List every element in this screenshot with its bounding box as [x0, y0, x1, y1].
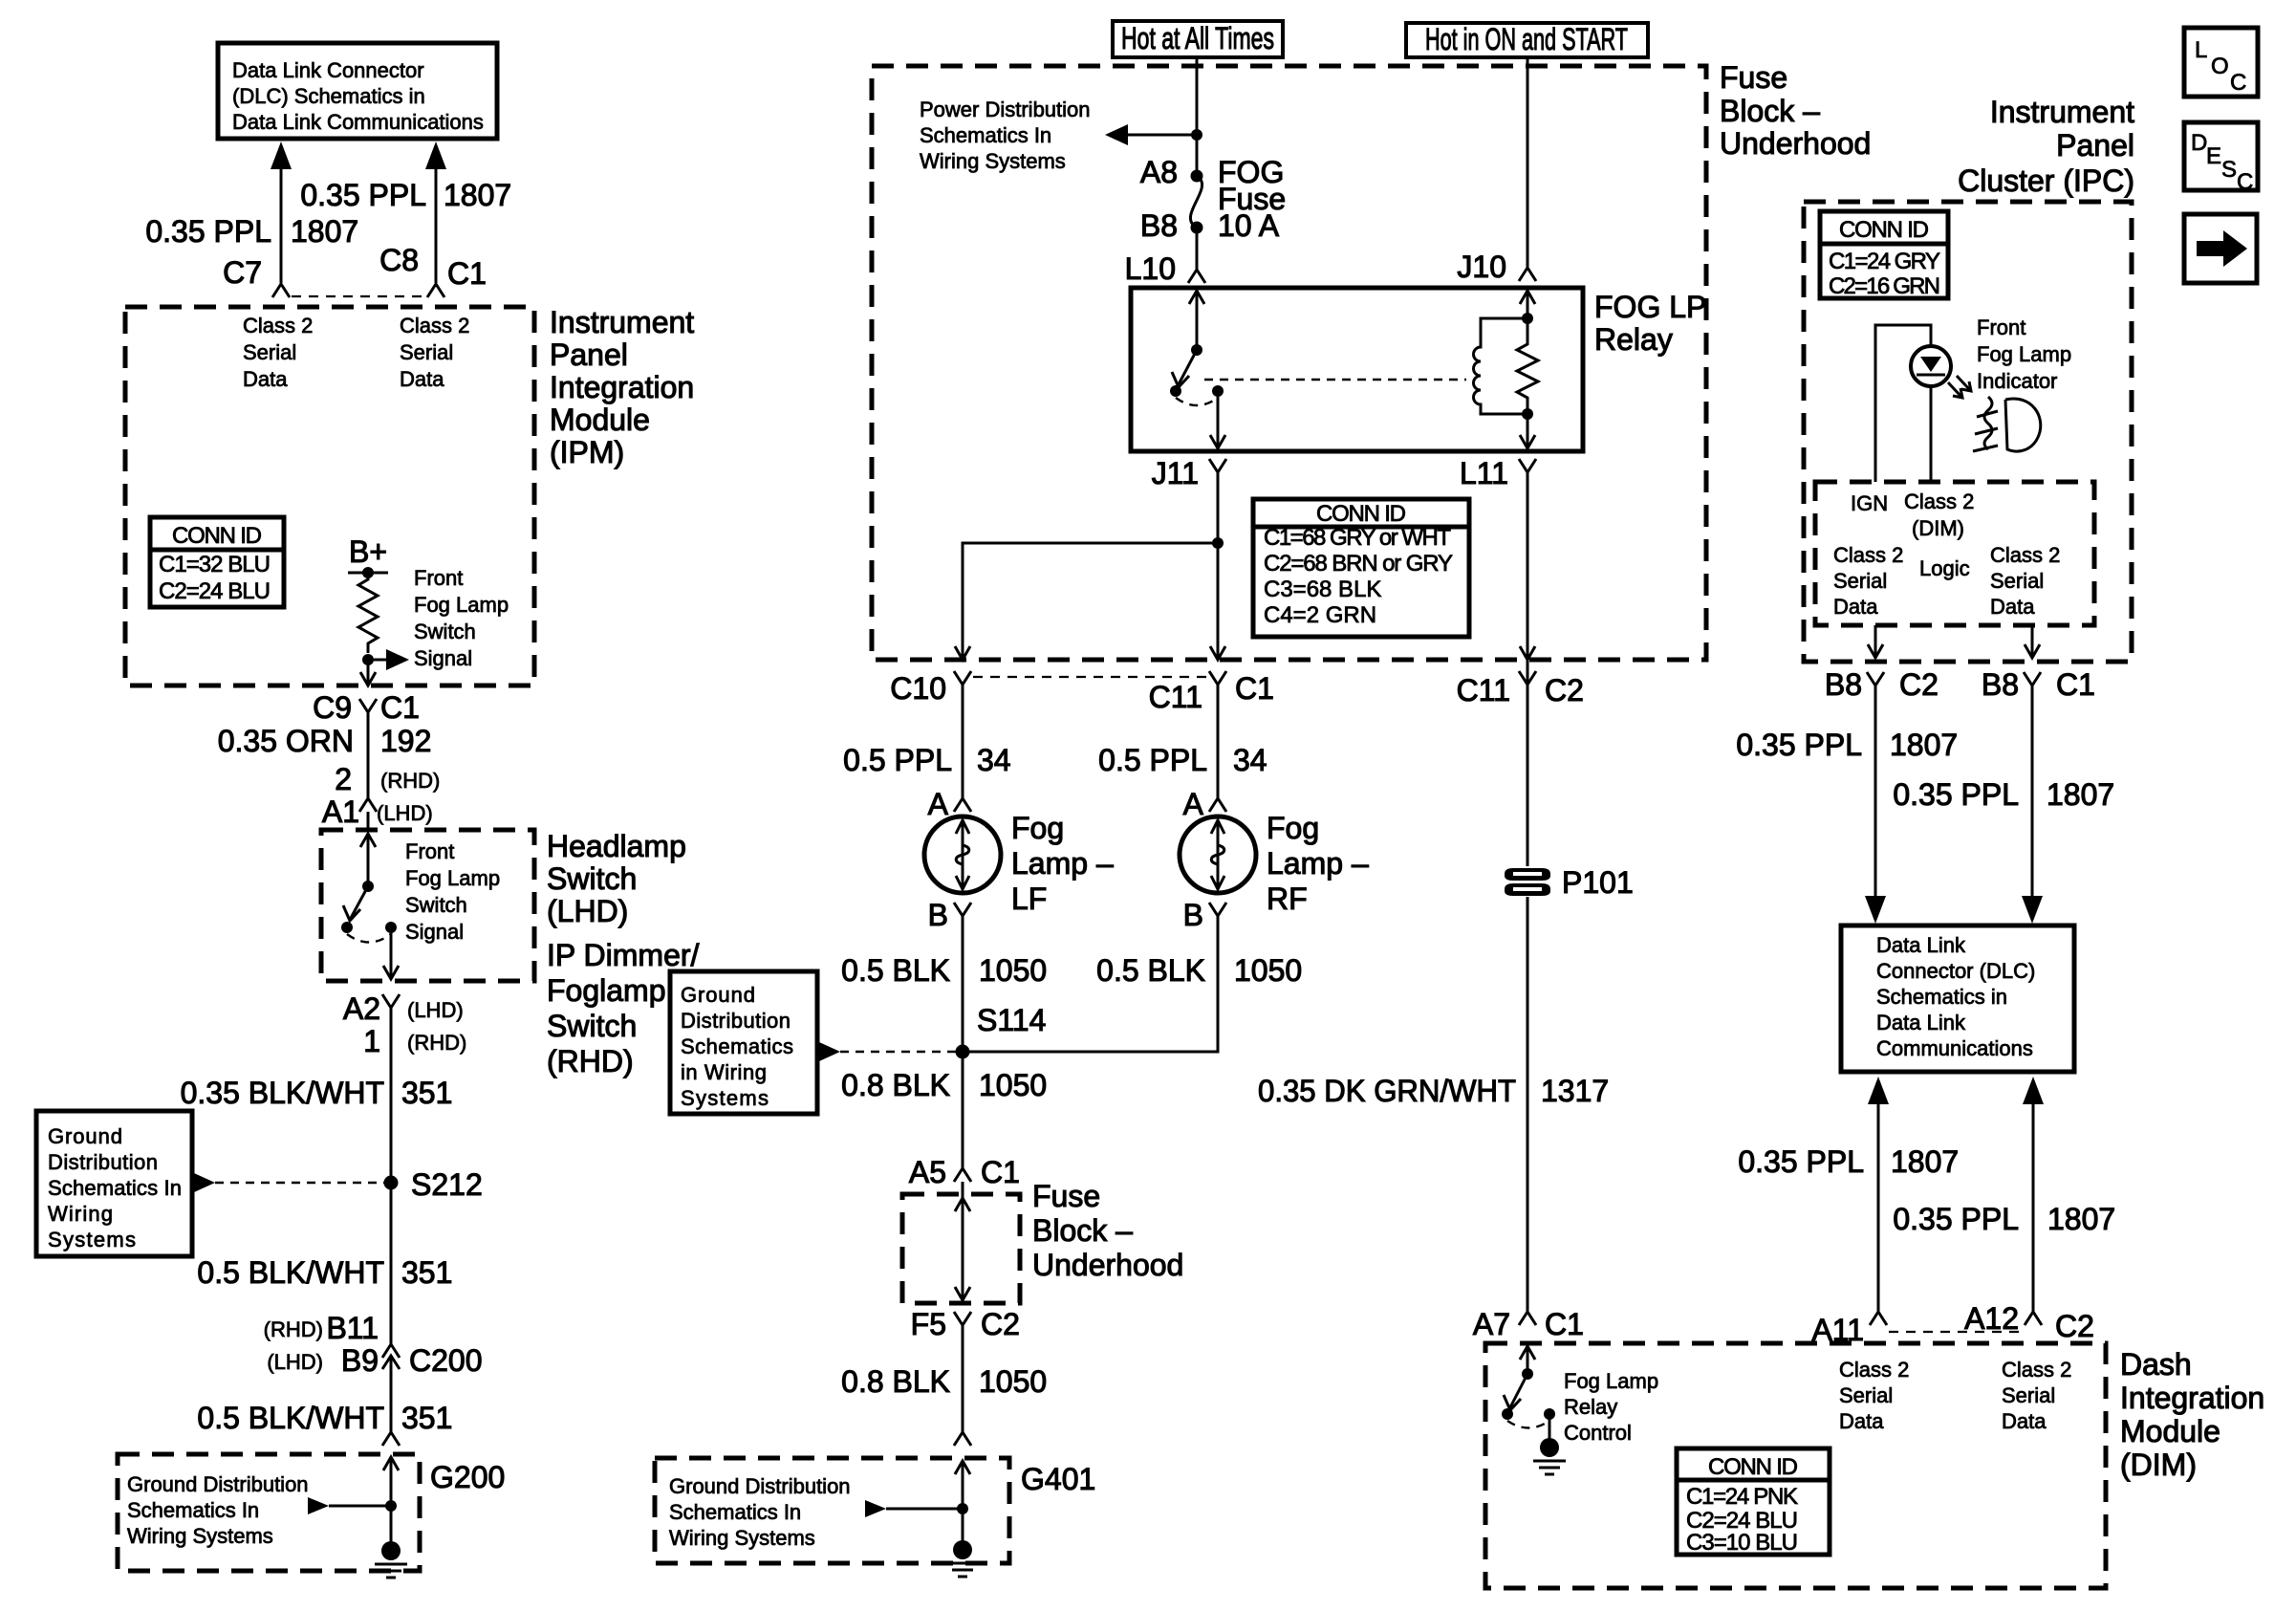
label 1 (RHD) — [363, 1024, 466, 1058]
label 0.35 PPL 1807 (A12 wire) — [1893, 1202, 2115, 1236]
svg-text:Serial: Serial — [243, 340, 296, 364]
svg-text:Wiring Systems: Wiring Systems — [920, 149, 1066, 173]
connector L10 fork — [1188, 270, 1205, 283]
wire signal to IPM edge with arrow — [360, 660, 376, 686]
Hot at All Times box — [1113, 21, 1283, 57]
svg-text:Schematics In: Schematics In — [127, 1498, 259, 1522]
svg-text:C1: C1 — [380, 690, 420, 725]
svg-text:1807: 1807 — [1891, 1144, 1959, 1179]
svg-text:1807: 1807 — [2047, 777, 2114, 812]
next-page arrow icon box — [2184, 214, 2257, 283]
svg-text:Distribution: Distribution — [681, 1009, 791, 1033]
svg-text:Relay: Relay — [1594, 322, 1673, 357]
text Ground Distribution Schematics In Wiring Systems (G401) — [669, 1474, 851, 1550]
svg-text:B8: B8 — [1982, 667, 2019, 702]
svg-text:(DIM): (DIM) — [2120, 1448, 2197, 1482]
svg-text:0.5 BLK: 0.5 BLK — [841, 953, 950, 988]
label 0.35 DK GRN/WHT 1317 — [1258, 1074, 1609, 1108]
headlamp switch output wire with down arrow — [383, 927, 399, 979]
DIM switch throw dashed arc — [1507, 1421, 1549, 1428]
label Front Fog Lamp Switch Signal (headlamp switch) — [405, 839, 500, 944]
svg-text:A: A — [928, 787, 949, 821]
headlamp switch throw dashed arc — [347, 934, 391, 943]
relay switch entry wire with up arrow — [1189, 291, 1204, 350]
label Class 2 Serial Data (A11) — [1839, 1358, 1909, 1433]
DIM ground symbol — [1533, 1414, 1566, 1474]
svg-text:Ground: Ground — [48, 1124, 122, 1148]
connector J11 fork — [1209, 459, 1226, 472]
fog lamp LF — [924, 816, 1001, 893]
IPC logic inner dashed box — [1815, 482, 2094, 625]
G200 splice arrow — [308, 1497, 391, 1514]
wire J11 down to junction — [1217, 472, 1220, 658]
wire B (LF) to S114 — [962, 916, 964, 1052]
svg-text:A8: A8 — [1140, 155, 1178, 189]
svg-text:C1=68 GRY or WHT: C1=68 GRY or WHT — [1264, 525, 1451, 551]
svg-text:1807: 1807 — [291, 214, 358, 249]
DIM switch terminal dot (left) — [1502, 1408, 1513, 1420]
svg-text:Cluster (IPC): Cluster (IPC) — [1958, 163, 2134, 198]
svg-text:(RHD): (RHD) — [407, 1031, 466, 1055]
svg-text:0.35 PPL: 0.35 PPL — [1893, 777, 2019, 812]
svg-text:C: C — [2237, 169, 2253, 195]
svg-text:IP Dimmer/: IP Dimmer/ — [547, 938, 700, 972]
svg-text:Block –: Block – — [1720, 94, 1820, 128]
svg-text:C1: C1 — [1545, 1307, 1584, 1341]
connector A7 fork — [1519, 1312, 1536, 1325]
svg-text:CONN ID: CONN ID — [1839, 217, 1929, 243]
wire B (RF) to S114 — [963, 916, 1218, 1052]
svg-text:1050: 1050 — [979, 953, 1047, 988]
front fog lamp indicator LED — [1911, 346, 1951, 386]
svg-text:Serial: Serial — [1839, 1383, 1893, 1407]
svg-text:(RHD): (RHD) — [380, 769, 440, 793]
svg-text:Data: Data — [1833, 595, 1878, 619]
label Headlamp Switch (LHD) / IP Dimmer Foglamp Switch (RHD) — [547, 829, 700, 1078]
svg-text:C2=68 BRN or GRY: C2=68 BRN or GRY — [1264, 551, 1453, 577]
svg-text:C2=24 BLU: C2=24 BLU — [159, 578, 271, 604]
svg-text:Serial: Serial — [1990, 569, 2044, 593]
label 0.5 PPL 34 (LF) — [843, 743, 1010, 777]
front fog lamp indicator icon — [1973, 397, 2041, 451]
svg-text:Control: Control — [1564, 1421, 1632, 1445]
svg-text:Class 2: Class 2 — [2002, 1358, 2071, 1382]
relay coil top junction dot — [1522, 313, 1533, 324]
svg-text:CONN ID: CONN ID — [1316, 501, 1406, 527]
label 0.35 PPL 1807 (A11 wire) — [1738, 1144, 1959, 1179]
svg-text:C1: C1 — [447, 256, 487, 291]
svg-text:Panel: Panel — [550, 337, 628, 372]
svg-text:A5: A5 — [909, 1155, 946, 1189]
label FOG LP Relay — [1594, 290, 1706, 357]
G200 junction dot — [385, 1500, 397, 1512]
label Class 2 Serial Data (logic right) — [1990, 543, 2060, 619]
relay switch throw dashed arc — [1176, 398, 1218, 405]
connector C10 fork — [954, 671, 971, 685]
DIM dashed box — [1485, 1343, 2106, 1588]
svg-text:Communications: Communications — [1876, 1036, 2033, 1060]
svg-text:(LHD): (LHD) — [547, 894, 628, 928]
svg-text:Wiring Systems: Wiring Systems — [669, 1526, 815, 1550]
headlamp switch dashed box — [321, 830, 534, 981]
G401 ground wire entry arrow — [955, 1461, 970, 1509]
wire through small fuse block with arrows — [955, 1182, 970, 1300]
svg-text:Systems: Systems — [681, 1086, 769, 1110]
G200 ground distribution dashed box — [118, 1454, 420, 1571]
label 0.5 BLK/WHT 351 (upper) — [197, 1255, 452, 1290]
text Ground Distribution Schematics In Wiring Systems (G200) — [127, 1472, 309, 1548]
svg-text:Front: Front — [1977, 316, 2025, 339]
svg-text:C200: C200 — [409, 1343, 483, 1378]
connector C8 fork — [427, 284, 444, 297]
label 0.35 PPL 1807 (B8/C2 wire) — [1736, 728, 1958, 762]
svg-text:B9: B9 — [341, 1343, 379, 1378]
connector B fork (RF) — [1209, 903, 1226, 916]
IPM module dashed box — [125, 307, 534, 686]
IPC wire IGN branch — [1875, 325, 1931, 482]
svg-text:34: 34 — [977, 743, 1011, 777]
FOG LP relay box — [1131, 288, 1583, 451]
svg-text:Signal: Signal — [405, 920, 464, 944]
svg-text:LF: LF — [1011, 882, 1047, 916]
CONN ID table (IPC) — [1820, 211, 1948, 299]
relay switch output wire with down arrow — [1210, 391, 1225, 448]
wire B8/C2 down to DLC with arrow — [1865, 686, 1886, 924]
svg-text:0.5 BLK/WHT: 0.5 BLK/WHT — [197, 1401, 384, 1435]
label 0.35 ORN 192 — [218, 724, 432, 758]
svg-text:Underhood: Underhood — [1032, 1248, 1183, 1282]
svg-text:Headlamp: Headlamp — [547, 829, 686, 863]
connector A5 fork — [954, 1168, 971, 1182]
svg-text:Schematics: Schematics — [681, 1034, 793, 1058]
svg-text:Indicator: Indicator — [1977, 369, 2057, 393]
svg-text:(LHD): (LHD) — [407, 998, 464, 1022]
label Class 2 Serial Data (C7 pin) — [243, 314, 313, 391]
svg-text:0.5 PPL: 0.5 PPL — [843, 743, 952, 777]
wire C9 to A1 — [367, 712, 370, 798]
svg-text:Fuse: Fuse — [1720, 60, 1787, 95]
svg-text:2: 2 — [335, 762, 352, 796]
svg-text:B11: B11 — [326, 1311, 379, 1345]
connector fork at G200 — [382, 1432, 400, 1446]
junction dot J11 branch — [1212, 537, 1224, 549]
headlamp switch terminal dot (left) — [341, 922, 353, 933]
svg-text:B+: B+ — [349, 534, 387, 569]
svg-text:Lamp –: Lamp – — [1011, 846, 1114, 881]
svg-text:C11: C11 — [1457, 673, 1510, 708]
DLC schematics box (top left) — [218, 43, 497, 139]
relay switch terminal dot (right) — [1212, 385, 1224, 397]
headlamp switch terminal dot (right) — [385, 922, 397, 933]
G401 junction dot — [957, 1503, 968, 1514]
S212 splice arrow — [194, 1173, 384, 1192]
svg-text:Wiring Systems: Wiring Systems — [127, 1524, 273, 1548]
svg-text:0.35 PPL: 0.35 PPL — [1738, 1144, 1864, 1179]
svg-text:Integration: Integration — [2120, 1381, 2264, 1415]
svg-text:34: 34 — [1233, 743, 1267, 777]
connector B8/C1 fork — [2024, 672, 2041, 686]
svg-text:0.35 PPL: 0.35 PPL — [1736, 728, 1862, 762]
svg-text:Serial: Serial — [2002, 1383, 2055, 1407]
label Fuse Block - Underhood (small) — [1032, 1179, 1183, 1282]
svg-text:1807: 1807 — [444, 178, 511, 212]
svg-text:F5: F5 — [911, 1307, 946, 1341]
label Dash Integration Module (DIM) — [2120, 1347, 2264, 1482]
connector A2 fork — [382, 994, 400, 1008]
pass-through grommet P101 — [1505, 868, 1550, 896]
svg-text:Fog Lamp: Fog Lamp — [405, 866, 500, 890]
svg-text:CONN ID: CONN ID — [1708, 1454, 1798, 1480]
connector A12 fork — [2025, 1312, 2042, 1325]
svg-text:Fog: Fog — [1011, 811, 1064, 845]
DIM switch lever with arrowhead — [1504, 1374, 1527, 1410]
svg-text:(LHD): (LHD) — [267, 1350, 323, 1374]
label 0.35 PPL 1807 (C8 wire) — [300, 178, 511, 212]
ground distribution schematics box (S114) — [670, 971, 817, 1114]
svg-text:C3=10 BLU: C3=10 BLU — [1686, 1530, 1798, 1556]
connector B fork (LF) — [954, 903, 971, 916]
fog lamp RF — [1180, 816, 1256, 893]
label 0.8 BLK 1050 (upper) — [841, 1068, 1047, 1102]
connector fork at G401 — [954, 1432, 971, 1446]
svg-text:Integration: Integration — [550, 370, 694, 404]
svg-text:Ground Distribution: Ground Distribution — [669, 1474, 851, 1498]
label 0.35 PPL 1807 (C7 wire) — [145, 214, 358, 249]
svg-text:C3=68 BLK: C3=68 BLK — [1264, 577, 1381, 602]
label A2 (LHD) — [343, 991, 464, 1026]
svg-text:Systems: Systems — [48, 1228, 136, 1252]
svg-text:Data Link: Data Link — [1876, 933, 1966, 957]
svg-text:L: L — [2195, 37, 2207, 63]
svg-text:Distribution: Distribution — [48, 1150, 158, 1174]
wire B8 to L10 — [1196, 228, 1199, 270]
IPC dashed box — [1804, 202, 2132, 662]
svg-text:Fog Lamp: Fog Lamp — [414, 593, 509, 617]
connector A fork (RF) — [1209, 798, 1226, 812]
svg-text:0.8 BLK: 0.8 BLK — [841, 1068, 950, 1102]
label Instrument Panel Cluster (IPC) — [1958, 95, 2134, 198]
svg-text:1050: 1050 — [979, 1364, 1047, 1399]
svg-text:L11: L11 — [1460, 456, 1508, 490]
LED light rays — [1948, 376, 1971, 398]
label Fog Lamp Relay Control — [1564, 1369, 1658, 1445]
svg-text:C: C — [2230, 70, 2246, 96]
svg-text:Schematics in: Schematics in — [1876, 985, 2007, 1009]
wire P101 to A7 — [1527, 897, 1529, 1312]
svg-text:Class 2: Class 2 — [1839, 1358, 1909, 1382]
svg-text:Fog Lamp: Fog Lamp — [1977, 342, 2071, 366]
svg-text:Switch: Switch — [414, 620, 476, 643]
svg-text:10 A: 10 A — [1218, 208, 1280, 243]
svg-text:(DLC) Schematics in: (DLC) Schematics in — [232, 84, 425, 108]
svg-text:C2=16 GRN: C2=16 GRN — [1829, 273, 1940, 299]
svg-text:(LHD): (LHD) — [377, 801, 433, 825]
connector A1 fork — [359, 798, 377, 812]
svg-text:Data Link Communications: Data Link Communications — [232, 110, 484, 134]
svg-text:1: 1 — [363, 1024, 380, 1058]
power distribution arrow — [1105, 124, 1197, 145]
connector A fork (LF) — [954, 798, 971, 812]
svg-text:S212: S212 — [411, 1167, 483, 1202]
svg-text:C11: C11 — [1149, 680, 1202, 714]
wire C7 to DLC with arrow — [271, 142, 292, 283]
svg-text:Switch: Switch — [547, 1009, 637, 1043]
G401 splice arrow — [865, 1500, 963, 1517]
label Power Distribution Schematics In Wiring Systems — [920, 98, 1091, 173]
headlamp switch lever with arrowhead — [343, 886, 368, 921]
svg-text:Class 2: Class 2 — [243, 314, 313, 337]
G401 ground distribution dashed box — [655, 1458, 1009, 1563]
svg-text:CONN ID: CONN ID — [172, 523, 262, 549]
svg-text:G401: G401 — [1021, 1462, 1095, 1496]
svg-text:Front: Front — [405, 839, 454, 863]
connector F5 fork — [954, 1312, 971, 1325]
connector dashed line C10-C11 — [973, 676, 1207, 678]
svg-text:1807: 1807 — [1890, 728, 1958, 762]
svg-text:Fuse: Fuse — [1032, 1179, 1100, 1213]
svg-text:0.35 PPL: 0.35 PPL — [300, 178, 426, 212]
svg-text:B: B — [1183, 898, 1203, 932]
connector C9 fork — [359, 699, 377, 712]
svg-text:351: 351 — [401, 1401, 452, 1435]
wire A11 up to DLC with arrow — [1868, 1077, 1889, 1312]
svg-text:Data: Data — [400, 367, 444, 391]
DLC schematics box (right) — [1841, 925, 2074, 1072]
svg-text:B8: B8 — [1140, 208, 1178, 243]
svg-text:0.5 PPL: 0.5 PPL — [1098, 743, 1207, 777]
svg-text:C1=24 PNK: C1=24 PNK — [1686, 1484, 1798, 1510]
svg-text:Dash: Dash — [2120, 1347, 2192, 1382]
svg-text:A12: A12 — [1964, 1301, 2019, 1336]
S114 splice dot — [956, 1045, 970, 1059]
label Fog Lamp - LF — [1011, 811, 1114, 916]
connector C11/C1 fork — [1209, 671, 1226, 685]
open arrow at fuse block exit (C11/C1) — [1210, 646, 1225, 660]
relay coil entry wire with up arrow — [1520, 291, 1535, 318]
svg-text:C9: C9 — [313, 690, 352, 725]
svg-text:1317: 1317 — [1541, 1074, 1609, 1108]
svg-text:(DIM): (DIM) — [1912, 516, 1964, 540]
headlamp switch entry wire with up arrow — [360, 812, 376, 886]
connector B8/C2 fork — [1867, 672, 1884, 686]
connector J10 fork — [1519, 268, 1536, 281]
svg-text:0.5 BLK/WHT: 0.5 BLK/WHT — [197, 1255, 384, 1290]
wire S114 to A5 — [962, 1052, 964, 1168]
Hot in ON and START box — [1406, 22, 1648, 57]
svg-text:C1: C1 — [2056, 667, 2095, 702]
svg-text:A1: A1 — [322, 795, 359, 829]
svg-text:Fog: Fog — [1267, 811, 1319, 845]
label Class 2 Serial Data (logic left) — [1833, 543, 1903, 619]
svg-text:C2: C2 — [1545, 673, 1584, 708]
CONN ID table (IPM) — [150, 517, 284, 607]
svg-text:(RHD): (RHD) — [264, 1317, 323, 1341]
relay coil (inductor) — [1474, 318, 1528, 414]
svg-text:B: B — [928, 898, 948, 932]
svg-text:0.35 PPL: 0.35 PPL — [1893, 1202, 2019, 1236]
svg-text:Module: Module — [550, 403, 650, 437]
svg-text:0.35 ORN: 0.35 ORN — [218, 724, 354, 758]
svg-text:Serial: Serial — [1833, 569, 1887, 593]
svg-text:(IPM): (IPM) — [550, 435, 624, 469]
svg-text:in Wiring: in Wiring — [681, 1060, 767, 1084]
svg-text:Serial: Serial — [400, 340, 453, 364]
svg-text:Logic: Logic — [1919, 556, 1970, 580]
relay coil output wire with down arrow — [1520, 414, 1535, 448]
wire F5 to G401 — [962, 1325, 964, 1432]
svg-text:D: D — [2191, 130, 2207, 156]
svg-text:C8: C8 — [379, 243, 419, 277]
svg-text:J10: J10 — [1457, 250, 1506, 284]
svg-text:Module: Module — [2120, 1414, 2220, 1448]
svg-text:Hot at All Times: Hot at All Times — [1121, 21, 1274, 55]
CONN ID table (DIM) — [1677, 1448, 1830, 1556]
svg-text:C1=32 BLU: C1=32 BLU — [159, 552, 271, 577]
label 2 (RHD) — [335, 762, 440, 796]
svg-text:Ground Distribution: Ground Distribution — [127, 1472, 309, 1496]
svg-text:Lamp –: Lamp – — [1267, 846, 1369, 881]
svg-text:Ground: Ground — [681, 983, 755, 1007]
relay switch lever with arrowhead — [1172, 350, 1197, 387]
G200 ground wire entry arrow — [383, 1457, 399, 1506]
svg-text:E: E — [2206, 143, 2221, 169]
svg-text:Switch: Switch — [547, 861, 637, 896]
svg-text:1050: 1050 — [979, 1068, 1047, 1102]
wire hot in ON to J10 — [1527, 57, 1529, 268]
G401 ground symbol — [946, 1509, 979, 1577]
G200 ground symbol — [375, 1506, 407, 1578]
svg-text:C1: C1 — [981, 1155, 1020, 1189]
ground distribution schematics box (S212) — [36, 1111, 192, 1256]
DIM switch pivot dot — [1522, 1368, 1533, 1380]
svg-text:A: A — [1183, 787, 1204, 821]
wire LED to logic box — [1930, 386, 1933, 482]
wire B8/C1 down to DLC with arrow — [2022, 686, 2043, 924]
svg-text:Switch: Switch — [405, 893, 467, 917]
wire A12 up to DLC with arrow — [2023, 1077, 2044, 1312]
label Front Fog Lamp Indicator — [1977, 316, 2071, 393]
signal junction dot — [362, 654, 374, 665]
label 0.5 BLK/WHT 351 (lower) — [197, 1401, 452, 1435]
svg-text:IGN: IGN — [1851, 491, 1888, 515]
svg-text:Class 2: Class 2 — [400, 314, 469, 337]
svg-text:C2: C2 — [2055, 1309, 2094, 1343]
wire C11 to lamp RF — [1217, 685, 1220, 798]
wire branch to C10 — [963, 543, 1218, 658]
signal arrow to label — [368, 649, 409, 670]
svg-text:Foglamp: Foglamp — [547, 973, 666, 1008]
svg-text:Schematics In: Schematics In — [669, 1500, 801, 1524]
connector C7 fork — [272, 284, 290, 297]
svg-text:S114: S114 — [977, 1003, 1046, 1037]
connector L11 fork — [1519, 459, 1536, 472]
relay coil resistor — [1517, 318, 1538, 414]
connector dashed line A11-A12 — [1889, 1331, 2024, 1333]
svg-text:C10: C10 — [890, 671, 946, 706]
svg-text:Class 2: Class 2 — [1833, 543, 1903, 567]
svg-text:Block –: Block – — [1032, 1213, 1133, 1248]
svg-text:192: 192 — [380, 724, 431, 758]
relay coil bottom junction dot — [1522, 408, 1533, 420]
wire C8/C1 to DLC with arrow — [425, 142, 446, 283]
svg-text:Front: Front — [414, 566, 463, 590]
svg-text:A7: A7 — [1473, 1307, 1510, 1341]
DESC icon box — [2184, 122, 2258, 195]
LOC icon box — [2184, 28, 2258, 97]
svg-text:Data Link Connector: Data Link Connector — [232, 58, 424, 82]
label 0.5 BLK 1050 (LF) — [841, 953, 1047, 988]
svg-text:L10: L10 — [1125, 251, 1176, 286]
